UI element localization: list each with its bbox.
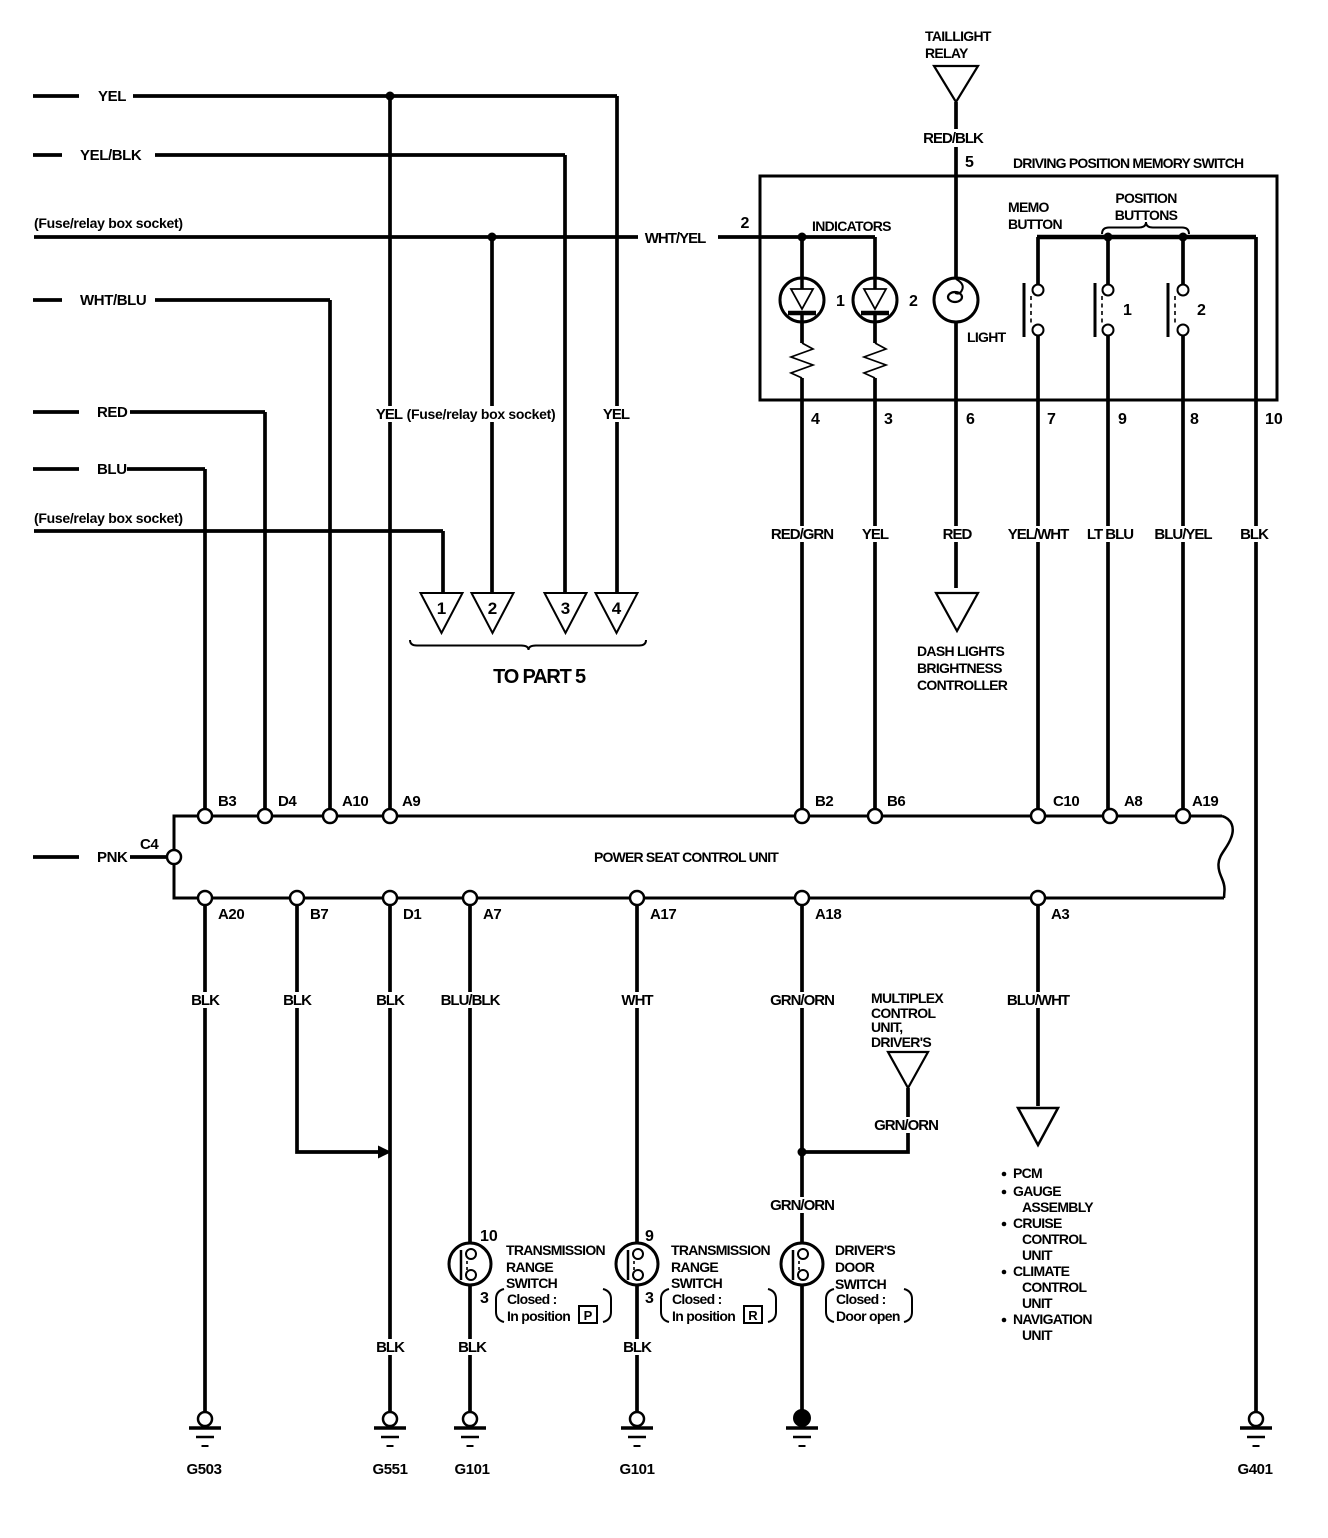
svg-text:G551: G551 <box>372 1461 407 1478</box>
svg-text:UNIT: UNIT <box>1022 1247 1053 1263</box>
svg-text:A17: A17 <box>650 906 676 923</box>
svg-text:PCM: PCM <box>1013 1165 1042 1181</box>
svg-text:TO PART 5: TO PART 5 <box>493 666 586 688</box>
svg-text:4: 4 <box>612 599 622 618</box>
svg-text:RED/GRN: RED/GRN <box>771 526 833 543</box>
svg-text:RANGE: RANGE <box>506 1259 553 1275</box>
svg-text:RED: RED <box>97 404 128 421</box>
svg-text:A8: A8 <box>1124 793 1142 810</box>
svg-text:A20: A20 <box>218 906 244 923</box>
svg-text:2: 2 <box>909 293 918 310</box>
svg-text:SWITCH: SWITCH <box>671 1275 723 1291</box>
svg-text:1: 1 <box>437 599 446 618</box>
svg-text:A7: A7 <box>483 906 501 923</box>
svg-text:BLK: BLK <box>191 992 220 1009</box>
svg-text:CONTROLLER: CONTROLLER <box>917 677 1008 693</box>
svg-text:9: 9 <box>1118 411 1127 428</box>
svg-text:In position: In position <box>672 1308 735 1324</box>
svg-text:POSITION: POSITION <box>1115 190 1177 206</box>
svg-text:WHT/BLU: WHT/BLU <box>80 292 146 309</box>
svg-text:ASSEMBLY: ASSEMBLY <box>1022 1199 1094 1215</box>
svg-text:B6: B6 <box>887 793 905 810</box>
svg-text:DASH LIGHTS: DASH LIGHTS <box>917 643 1005 659</box>
svg-text:TRANSMISSION: TRANSMISSION <box>506 1242 606 1258</box>
svg-text:YEL/BLK: YEL/BLK <box>80 147 142 164</box>
svg-text:(Fuse/relay box socket): (Fuse/relay box socket) <box>34 215 183 231</box>
svg-text:SWITCH: SWITCH <box>835 1276 887 1292</box>
svg-text:BLK: BLK <box>376 1339 405 1356</box>
svg-text:BLK: BLK <box>1240 526 1269 543</box>
svg-text:YEL: YEL <box>376 406 403 423</box>
svg-text:Closed :: Closed : <box>836 1291 886 1307</box>
svg-text:3: 3 <box>645 1290 654 1307</box>
svg-text:CONTROL: CONTROL <box>1022 1279 1087 1295</box>
svg-text:BLK: BLK <box>376 992 405 1009</box>
svg-text:GRN/ORN: GRN/ORN <box>770 1197 834 1214</box>
svg-text:2: 2 <box>741 215 750 232</box>
svg-text:G101: G101 <box>619 1461 654 1478</box>
svg-text:6: 6 <box>966 411 975 428</box>
svg-text:G503: G503 <box>186 1461 221 1478</box>
svg-text:1: 1 <box>836 293 845 310</box>
svg-text:9: 9 <box>645 1228 654 1245</box>
svg-text:R: R <box>748 1308 758 1323</box>
svg-text:B2: B2 <box>815 793 833 810</box>
svg-text:BLU: BLU <box>97 461 127 478</box>
svg-text:Closed :: Closed : <box>507 1291 557 1307</box>
svg-text:CRUISE: CRUISE <box>1013 1215 1062 1231</box>
svg-text:MULTIPLEX: MULTIPLEX <box>871 990 944 1006</box>
svg-text:P: P <box>584 1308 593 1323</box>
svg-text:GAUGE: GAUGE <box>1013 1183 1061 1199</box>
svg-text:In position: In position <box>507 1308 570 1324</box>
svg-text:2: 2 <box>488 599 497 618</box>
svg-text:RANGE: RANGE <box>671 1259 718 1275</box>
svg-text:MEMO: MEMO <box>1008 199 1050 215</box>
svg-text:3: 3 <box>884 411 893 428</box>
svg-text:CLIMATE: CLIMATE <box>1013 1263 1070 1279</box>
svg-text:RED/BLK: RED/BLK <box>923 130 984 147</box>
svg-text:A19: A19 <box>1192 793 1218 810</box>
svg-text:B3: B3 <box>218 793 236 810</box>
svg-text:1: 1 <box>1123 302 1132 319</box>
svg-text:10: 10 <box>1265 411 1283 428</box>
svg-text:BLK: BLK <box>458 1339 487 1356</box>
svg-text:BLK: BLK <box>283 992 312 1009</box>
svg-text:A10: A10 <box>342 793 368 810</box>
svg-text:TRANSMISSION: TRANSMISSION <box>671 1242 771 1258</box>
svg-text:CONTROL: CONTROL <box>1022 1231 1087 1247</box>
svg-text:10: 10 <box>480 1228 498 1245</box>
svg-text:DOOR: DOOR <box>835 1259 875 1275</box>
svg-text:DRIVER'S: DRIVER'S <box>871 1034 931 1050</box>
svg-text:8: 8 <box>1190 411 1199 428</box>
svg-text:G101: G101 <box>454 1461 489 1478</box>
svg-text:D1: D1 <box>403 906 421 923</box>
svg-text:BLK: BLK <box>623 1339 652 1356</box>
svg-text:A3: A3 <box>1051 906 1069 923</box>
svg-text:BLU/BLK: BLU/BLK <box>441 992 501 1009</box>
svg-text:2: 2 <box>1197 302 1206 319</box>
svg-text:BUTTONS: BUTTONS <box>1115 207 1178 223</box>
svg-text:NAVIGATION: NAVIGATION <box>1013 1311 1092 1327</box>
svg-text:B7: B7 <box>310 906 328 923</box>
svg-text:RELAY: RELAY <box>925 45 969 61</box>
svg-text:WHT/YEL: WHT/YEL <box>645 230 706 247</box>
svg-text:WHT: WHT <box>621 992 653 1009</box>
svg-text:(Fuse/relay box socket): (Fuse/relay box socket) <box>407 406 556 422</box>
svg-text:A9: A9 <box>402 793 420 810</box>
svg-text:5: 5 <box>965 154 974 171</box>
svg-text:3: 3 <box>561 599 570 618</box>
svg-text:DRIVING POSITION MEMORY SWITCH: DRIVING POSITION MEMORY SWITCH <box>1013 155 1244 171</box>
svg-text:UNIT: UNIT <box>1022 1295 1053 1311</box>
svg-text:PNK: PNK <box>97 849 128 866</box>
svg-text:Closed :: Closed : <box>672 1291 722 1307</box>
svg-text:A18: A18 <box>815 906 841 923</box>
svg-text:YEL: YEL <box>98 88 126 105</box>
svg-text:C4: C4 <box>140 836 159 853</box>
svg-text:3: 3 <box>480 1290 489 1307</box>
svg-text:GRN/ORN: GRN/ORN <box>770 992 834 1009</box>
svg-text:INDICATORS: INDICATORS <box>812 218 891 234</box>
svg-text:G401: G401 <box>1237 1461 1272 1478</box>
svg-text:Door open: Door open <box>836 1308 900 1324</box>
svg-text:GRN/ORN: GRN/ORN <box>874 1117 938 1134</box>
svg-text:7: 7 <box>1047 411 1056 428</box>
svg-text:D4: D4 <box>278 793 297 810</box>
svg-text:SWITCH: SWITCH <box>506 1275 558 1291</box>
svg-text:BLU/YEL: BLU/YEL <box>1154 526 1212 543</box>
svg-text:BLU/WHT: BLU/WHT <box>1007 992 1070 1009</box>
svg-text:(Fuse/relay box socket): (Fuse/relay box socket) <box>34 510 183 526</box>
svg-text:DRIVER'S: DRIVER'S <box>835 1242 895 1258</box>
svg-text:YEL: YEL <box>603 406 630 423</box>
svg-text:YEL: YEL <box>862 526 889 543</box>
svg-text:4: 4 <box>811 411 820 428</box>
svg-text:YEL/WHT: YEL/WHT <box>1008 526 1069 543</box>
svg-text:TAILLIGHT: TAILLIGHT <box>925 28 992 44</box>
svg-text:LIGHT: LIGHT <box>967 329 1007 345</box>
svg-text:BUTTON: BUTTON <box>1008 216 1062 232</box>
svg-text:BRIGHTNESS: BRIGHTNESS <box>917 660 1002 676</box>
svg-text:UNIT: UNIT <box>1022 1327 1053 1343</box>
svg-text:RED: RED <box>943 526 973 543</box>
svg-text:POWER SEAT CONTROL UNIT: POWER SEAT CONTROL UNIT <box>594 849 779 865</box>
svg-text:C10: C10 <box>1053 793 1079 810</box>
svg-text:LT BLU: LT BLU <box>1087 526 1133 543</box>
svg-text:UNIT,: UNIT, <box>871 1019 903 1035</box>
